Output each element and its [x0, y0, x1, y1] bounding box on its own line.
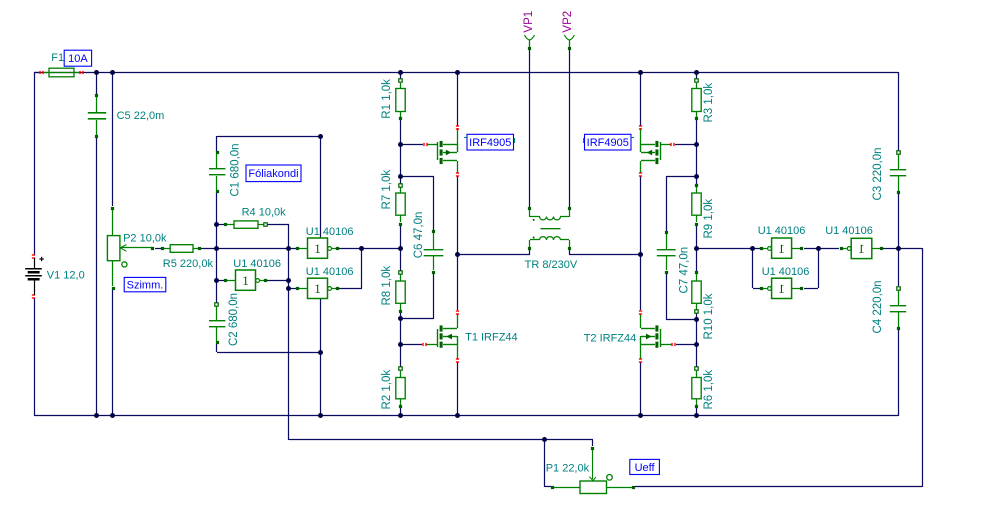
svg-text:P1 22,0k: P1 22,0k — [546, 462, 590, 474]
svg-text:U1 40106: U1 40106 — [306, 226, 354, 238]
svg-text:R2 1,0k: R2 1,0k — [381, 370, 393, 410]
svg-text:F1: F1 — [51, 52, 64, 64]
svg-text:C4 220,0n: C4 220,0n — [872, 280, 884, 333]
svg-text:C5 22,0m: C5 22,0m — [117, 110, 165, 122]
svg-text:U1 40106: U1 40106 — [758, 225, 806, 237]
svg-text:R10 1,0k: R10 1,0k — [703, 293, 715, 339]
svg-text:C6 47,0n: C6 47,0n — [413, 212, 425, 259]
svg-text:C7 47,0n: C7 47,0n — [679, 247, 691, 294]
svg-text:10A: 10A — [68, 53, 88, 65]
svg-text:VP2: VP2 — [562, 11, 574, 33]
svg-text:C3 220,0n: C3 220,0n — [872, 147, 884, 200]
svg-text:U1 40106: U1 40106 — [306, 266, 354, 278]
svg-text:TR 8/230V: TR 8/230V — [525, 259, 578, 271]
svg-text:VP1: VP1 — [523, 11, 535, 33]
svg-text:Fóliakondi: Fóliakondi — [248, 168, 298, 180]
svg-text:1: 1 — [242, 273, 249, 288]
svg-text:P2 10,0k: P2 10,0k — [123, 232, 167, 244]
svg-text:1: 1 — [314, 241, 321, 256]
svg-text:V1 12,0: V1 12,0 — [47, 269, 85, 281]
svg-text:R1 1,0k: R1 1,0k — [381, 79, 393, 119]
svg-text:R9 1,0k: R9 1,0k — [703, 199, 715, 239]
svg-text:Ueff: Ueff — [635, 462, 656, 474]
svg-text:C1 680,0n: C1 680,0n — [230, 143, 242, 196]
svg-text:T2 IRFZ44: T2 IRFZ44 — [584, 333, 637, 345]
svg-text:R4 10,0k: R4 10,0k — [242, 207, 287, 219]
svg-text:R5 220,0k: R5 220,0k — [163, 258, 214, 270]
svg-text:Szimm.: Szimm. — [127, 280, 164, 292]
svg-text:T1 IRFZ44: T1 IRFZ44 — [465, 332, 518, 344]
svg-text:1: 1 — [858, 241, 865, 256]
svg-text:R6 1,0k: R6 1,0k — [703, 370, 715, 410]
svg-text:U1 40106: U1 40106 — [233, 258, 281, 270]
svg-text:R7 1,0k: R7 1,0k — [381, 170, 393, 210]
svg-text:IRF4905: IRF4905 — [587, 137, 629, 149]
svg-text:C2 680,0n: C2 680,0n — [228, 293, 240, 346]
svg-text:1: 1 — [314, 281, 321, 296]
svg-text:U1 40106: U1 40106 — [825, 225, 873, 237]
svg-text:R3 1,0k: R3 1,0k — [703, 83, 715, 123]
svg-text:U1 40106: U1 40106 — [762, 266, 810, 278]
svg-text:1: 1 — [778, 241, 785, 256]
svg-text:1: 1 — [778, 281, 785, 296]
svg-text:IRF4905: IRF4905 — [469, 137, 511, 149]
svg-text:R8 1,0k: R8 1,0k — [381, 266, 393, 306]
